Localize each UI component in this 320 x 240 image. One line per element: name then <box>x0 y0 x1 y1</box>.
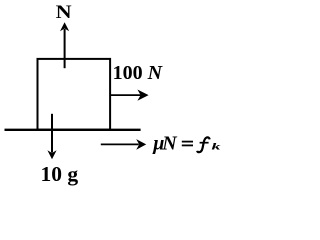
svg-text:μN: μN <box>152 133 178 155</box>
equals sign <box>182 141 193 143</box>
svg-text:N: N <box>56 2 72 23</box>
svg-text:k: k <box>212 142 221 152</box>
block (square) <box>38 59 111 130</box>
weight arrow 10g (down) <box>47 114 56 159</box>
label f <box>197 137 210 152</box>
svg-text:100 N: 100 N <box>113 62 164 84</box>
friction arrow (right, below ground) <box>101 139 146 150</box>
normal force arrow N (up) <box>60 22 69 68</box>
ground line <box>5 129 141 131</box>
free-body diagram <box>0 0 225 192</box>
applied force arrow 100 N (right) <box>110 90 149 101</box>
svg-text:10 g: 10 g <box>41 162 79 186</box>
